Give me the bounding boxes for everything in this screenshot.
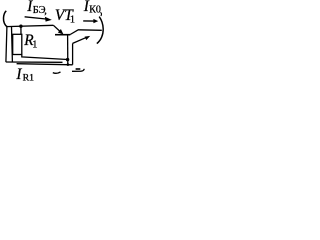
transistor VT1 collector lead [70, 30, 78, 35]
left terminal break curve [3, 11, 7, 27]
wire bottom lower horizontal [17, 64, 73, 65]
current arrow I_BE [25, 17, 46, 19]
wire left outer vertical [6, 27, 7, 62]
wire right riser to arrow [72, 43, 74, 64]
wire second vertical (from node A area down) [11, 27, 14, 62]
svg-text:,: , [44, 5, 47, 16]
svg-text:1: 1 [70, 15, 75, 26]
svg-text:R1: R1 [23, 72, 35, 83]
transistor VT1 base bar [55, 34, 70, 36]
arrow to collector terminal [73, 37, 87, 43]
resistor R1 [13, 34, 22, 54]
wire bottom outer horizontal [6, 61, 63, 63]
transistor VT1 base lead vertical [67, 35, 69, 65]
wire R1 top lead [20, 26, 22, 34]
node A junction dot [19, 25, 22, 28]
svg-text:К0: К0 [89, 5, 101, 16]
transistor VT1 emitter with arrow [53, 25, 60, 31]
right terminal break curve [97, 17, 103, 44]
svg-text:1: 1 [32, 39, 37, 50]
comma after IK0 [100, 12, 101, 16]
wire top horizontal (emitter feed) [6, 25, 53, 26]
svg-text:I: I [15, 66, 22, 83]
stray mark bottom middle [53, 72, 61, 73]
bottom right squiggle curve [72, 69, 84, 72]
bottom right squiggle dash [76, 68, 81, 70]
lower junction dot [67, 63, 70, 66]
base node junction dot [66, 58, 69, 61]
wire R1 bottom lead and run to base node [22, 54, 68, 59]
current arrow I_K0 [83, 20, 94, 22]
wire collector to right terminal [78, 29, 102, 32]
